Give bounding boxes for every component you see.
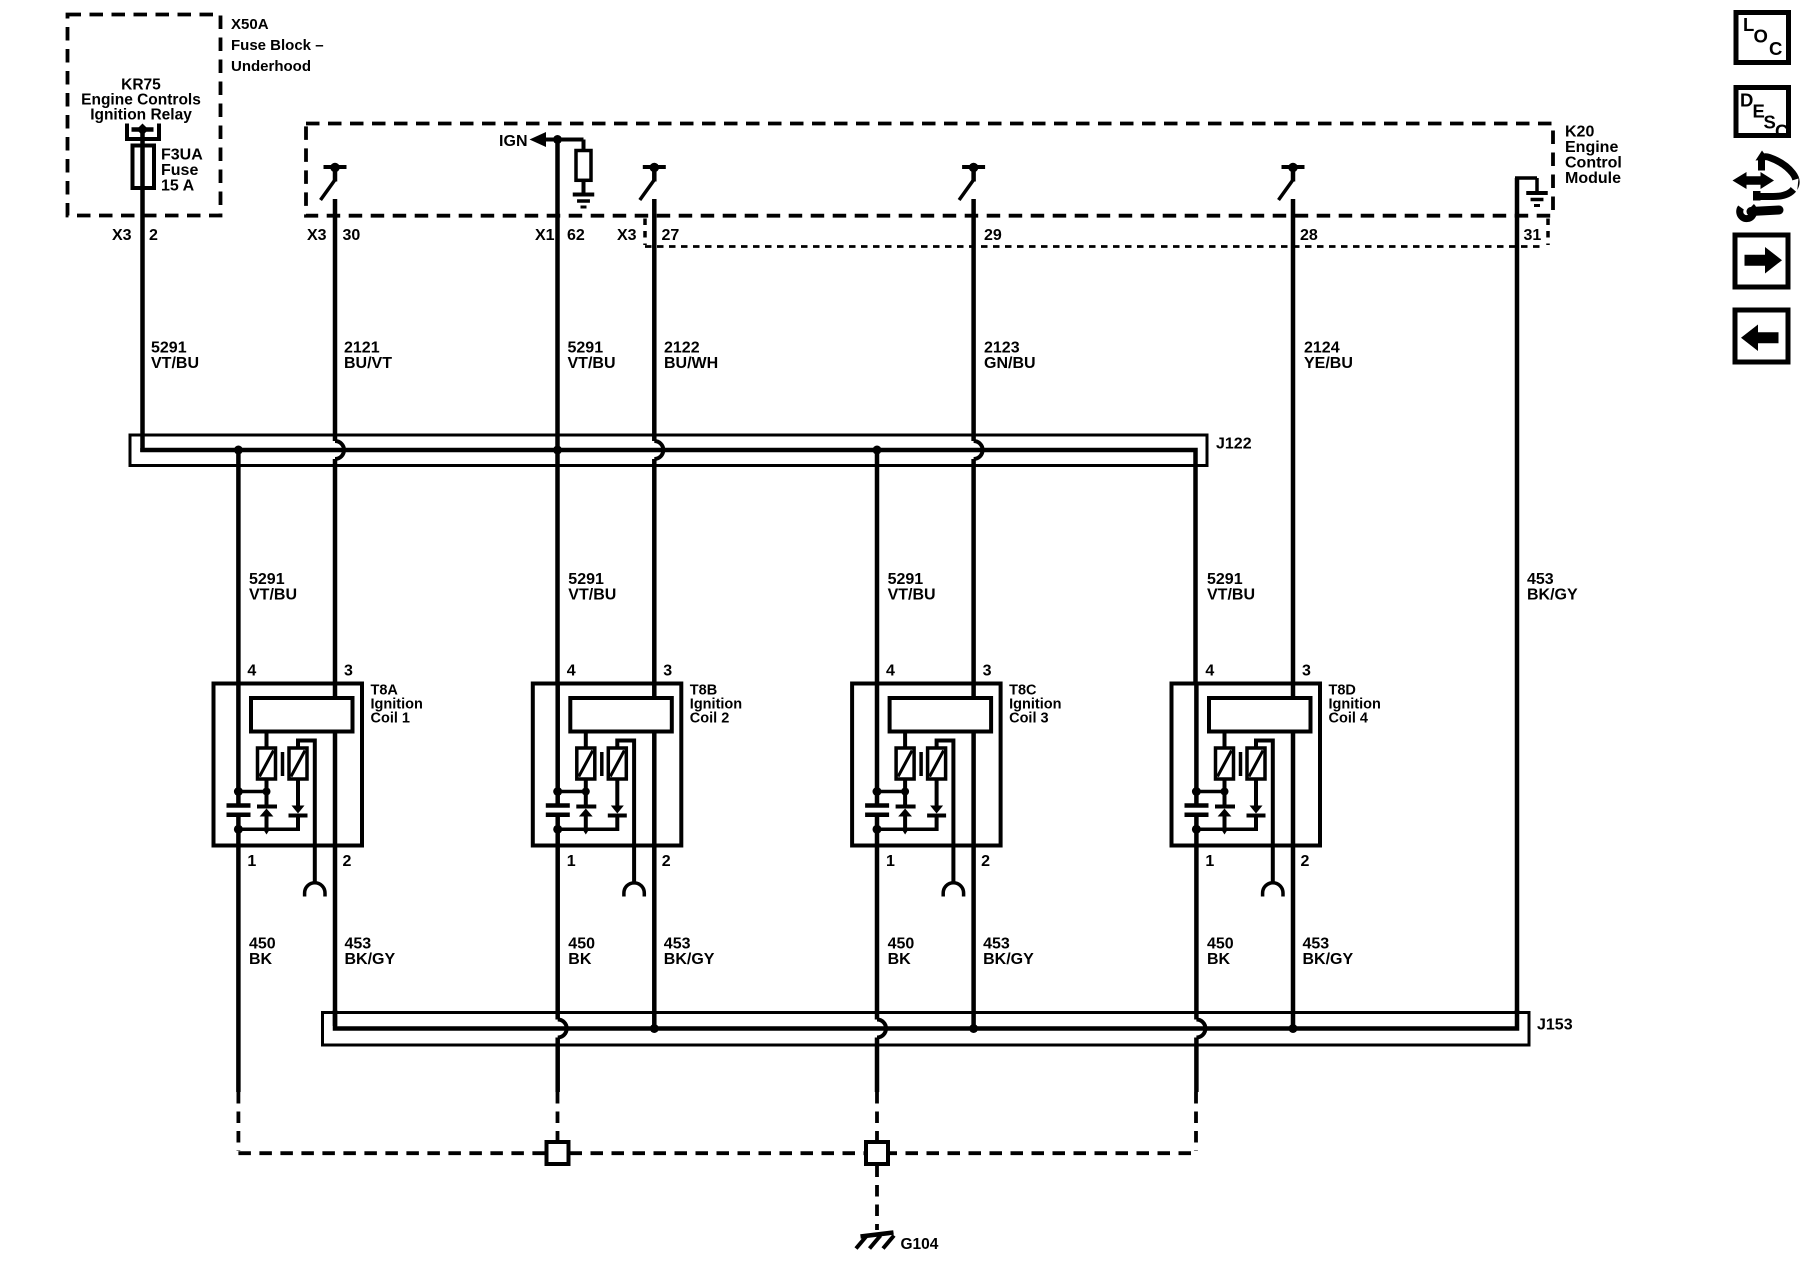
svg-text:453: 453 — [345, 936, 372, 953]
wire 453 BK/GY coil1 pin2 down — [333, 845, 338, 1026]
T8C secondary winding — [928, 748, 946, 779]
ground symbol pin 31 — [1526, 193, 1548, 206]
svg-text:28: 28 — [1300, 227, 1318, 244]
switch driver for pin 27 — [640, 163, 666, 200]
switch driver for pin 29 — [959, 163, 985, 200]
T8C pin2 internal wire from module — [971, 731, 976, 846]
label X50A Fuse Block - Underhood — [231, 16, 324, 75]
svg-text:J122: J122 — [1216, 436, 1252, 453]
svg-text:2: 2 — [981, 853, 990, 870]
wire 453 BK/GY pin31 to J153 — [1515, 178, 1520, 1014]
T8D junction dot pin4 lower — [1192, 825, 1201, 834]
T8A zener diode left — [257, 807, 277, 835]
svg-text:BK/GY: BK/GY — [664, 951, 715, 968]
svg-text:1: 1 — [1205, 853, 1214, 870]
svg-text:2121: 2121 — [344, 340, 380, 357]
svg-text:453: 453 — [983, 936, 1010, 953]
ECM internal ground for pin 31 — [1515, 178, 1537, 193]
T8A primary module rectangle — [251, 698, 353, 732]
relay KR75 contact symbol — [127, 124, 159, 140]
svg-text:4: 4 — [1205, 663, 1214, 680]
wire 2124 YE/BU pin28 to coil4 pin3 — [1291, 199, 1296, 684]
junction dot J122 coil1 feed — [234, 446, 243, 455]
T8C secondary to HV terminal wire — [937, 741, 954, 885]
splice J153 internal bus wire — [335, 1010, 1517, 1029]
svg-text:3: 3 — [1302, 663, 1311, 680]
svg-text:BK/GY: BK/GY — [983, 951, 1034, 968]
svg-text:VT/BU: VT/BU — [151, 355, 199, 372]
svg-text:D: D — [1740, 90, 1753, 111]
svg-text:Coil 4: Coil 4 — [1329, 711, 1368, 727]
svg-text:BK/GY: BK/GY — [1303, 951, 1354, 968]
wire label 5291 VT/BU coil4 — [1207, 571, 1255, 604]
T8B primary winding — [577, 748, 595, 779]
fuse block X50A dashed box — [68, 15, 221, 216]
svg-text:450: 450 — [249, 936, 276, 953]
svg-text:1: 1 — [247, 853, 256, 870]
junction dot J153 coil2 — [650, 1024, 659, 1033]
svg-text:62: 62 — [567, 227, 585, 244]
wire from relay through fuse down to J122 splice — [140, 130, 145, 453]
resistor in ECM — [576, 140, 591, 195]
wire label 5291 VT/BU coil3 — [888, 571, 936, 604]
dashed ground wire coil3 450 BK — [875, 1092, 879, 1141]
svg-text:5291: 5291 — [1207, 571, 1243, 588]
T8C bottom return wire — [877, 828, 938, 832]
wire 2123 GN/BU pin29 to coil3 pin3 — [974, 199, 983, 684]
splice J153 outline — [323, 1013, 1530, 1046]
svg-text:BK/GY: BK/GY — [345, 951, 396, 968]
inline connector square at coil3 ground — [866, 1142, 888, 1164]
T8D diode right — [1247, 806, 1266, 832]
wire label 453 BK/GY coil3 — [983, 936, 1034, 969]
svg-text:2: 2 — [343, 853, 352, 870]
svg-text:453: 453 — [664, 936, 691, 953]
T8D core bar — [1239, 752, 1243, 776]
connector label X3 pin 2 — [112, 227, 158, 244]
wire label 453 BK/GY coil2 — [664, 936, 715, 969]
T8C capacitor — [865, 806, 889, 815]
T8A diode right — [289, 806, 308, 832]
T8A pin1 wire capacitor to box bottom — [236, 815, 241, 846]
svg-text:4: 4 — [567, 663, 576, 680]
wire 450 BK coil1 pin1 down — [236, 845, 241, 1092]
T8B junction dot pin4 upper — [553, 787, 562, 796]
dashed wire square to G104 — [875, 1166, 879, 1231]
svg-text:VT/BU: VT/BU — [568, 587, 616, 604]
T8B primary module rectangle — [570, 698, 672, 732]
junction dot J122 at coil2 feed — [553, 446, 562, 455]
T8D primary winding — [1216, 748, 1234, 779]
T8A wire pin4 to primary return — [238, 790, 266, 794]
IGN label and arrow — [499, 132, 546, 150]
wire 2121 BU/VT pin30 to coil1 pin3 — [335, 199, 344, 684]
dashed ground wire coil2 450 BK — [556, 1092, 560, 1141]
wire label 450 BK coil1 — [249, 936, 276, 969]
svg-text:BK/GY: BK/GY — [1527, 587, 1578, 604]
T8B secondary winding lower wire — [615, 779, 619, 806]
T8B junction dot primary return — [582, 788, 590, 796]
svg-text:X50A: X50A — [231, 16, 269, 33]
svg-text:J153: J153 — [1537, 1017, 1573, 1034]
svg-text:1: 1 — [886, 853, 895, 870]
svg-text:2122: 2122 — [664, 340, 700, 357]
svg-text:IGN: IGN — [499, 133, 527, 150]
sidebar LOC button — [1736, 13, 1789, 63]
svg-text:453: 453 — [1527, 571, 1554, 588]
svg-text:1: 1 — [567, 853, 576, 870]
dashed ground wire coil4 450 BK — [1194, 1092, 1198, 1151]
sidebar hotlink icon — [1733, 151, 1799, 219]
T8D pin4 internal wire — [1194, 683, 1199, 806]
T8C secondary winding lower wire — [935, 779, 939, 806]
svg-text:BK: BK — [888, 951, 912, 968]
T8D spark plug gap symbol — [1263, 883, 1283, 897]
wire 450 BK coil2 pin1 down — [558, 845, 567, 1092]
T8C pin4 internal wire — [875, 683, 880, 806]
svg-text:Engine: Engine — [1565, 139, 1618, 156]
T8D wire module to primary winding — [1223, 731, 1227, 749]
T8B secondary to HV terminal wire — [617, 741, 634, 885]
label T8B Ignition Coil 2 — [690, 683, 742, 727]
svg-text:3: 3 — [663, 663, 672, 680]
svg-text:C: C — [1769, 38, 1782, 59]
ground G104 symbol — [856, 1233, 894, 1249]
T8A core bar — [281, 752, 285, 776]
T8A pin3 internal wire — [333, 683, 338, 700]
sidebar back arrow button — [1735, 310, 1788, 362]
svg-text:Module: Module — [1565, 170, 1621, 187]
T8A pin4 internal wire — [236, 683, 241, 806]
wire IGN feed horizontal — [545, 138, 584, 142]
T8C pin1 wire capacitor to box bottom — [875, 815, 880, 846]
T8A capacitor — [227, 806, 251, 815]
sidebar DESC button — [1736, 88, 1789, 142]
svg-text:BK: BK — [1207, 951, 1231, 968]
T8D wire pin4 to primary return — [1196, 790, 1224, 794]
svg-text:O: O — [1754, 26, 1768, 47]
svg-text:2: 2 — [662, 853, 671, 870]
wire 5291 VT/BU J122 to coil1 pin4 — [236, 448, 241, 684]
svg-text:5291: 5291 — [249, 571, 285, 588]
svg-text:BK: BK — [568, 951, 592, 968]
connector pin labels X3 27 — [617, 227, 679, 244]
wire 453 BK/GY coil4 pin2 down — [1291, 845, 1296, 1029]
ignition coil T8A box — [214, 684, 363, 846]
T8D junction dot pin4 upper — [1192, 787, 1201, 796]
T8B wire pin4 to primary return — [558, 790, 586, 794]
wire 2122 BU/WH pin27 to coil2 pin3 — [654, 199, 663, 684]
svg-text:453: 453 — [1303, 936, 1330, 953]
label T8C Ignition Coil 3 — [1009, 683, 1061, 727]
T8D secondary to HV terminal wire — [1256, 741, 1273, 885]
svg-text:X1: X1 — [535, 227, 555, 244]
svg-text:Underhood: Underhood — [231, 58, 311, 75]
fuse F3UA 15A symbol — [133, 146, 155, 189]
dashed ground wire coil1 450 BK — [236, 1092, 240, 1151]
svg-text:F3UA: F3UA — [161, 147, 203, 164]
T8B capacitor — [546, 806, 570, 815]
junction dot J122 coil3 feed — [873, 446, 882, 455]
label KR75 Engine Controls Ignition Relay — [81, 77, 201, 124]
svg-text:Control: Control — [1565, 155, 1622, 172]
svg-text:3: 3 — [983, 663, 992, 680]
T8D secondary winding — [1247, 748, 1265, 779]
T8A secondary winding lower wire — [296, 779, 300, 806]
wire 453 BK/GY coil2 pin2 down — [652, 845, 657, 1029]
svg-text:450: 450 — [1207, 936, 1234, 953]
svg-text:G104: G104 — [901, 1236, 939, 1253]
splice J122 outline — [130, 435, 1207, 466]
svg-text:5291: 5291 — [568, 340, 604, 357]
svg-text:Coil 1: Coil 1 — [371, 711, 410, 727]
svg-text:Coil 3: Coil 3 — [1009, 711, 1048, 727]
T8C diode right — [927, 806, 946, 832]
T8B pin4 internal wire — [555, 683, 560, 806]
T8B pin1 wire capacitor to box bottom — [555, 815, 560, 846]
svg-text:S: S — [1764, 112, 1776, 133]
connector pin labels X1 62 — [535, 227, 585, 244]
svg-text:15 A: 15 A — [161, 178, 195, 195]
wire label 5291 VT/BU coil2 — [568, 571, 616, 604]
wire label 2124 YE/BU — [1304, 340, 1353, 373]
wire label 453 BK/GY coil1 — [345, 936, 396, 969]
T8B zener diode left — [576, 807, 596, 835]
T8A secondary to HV terminal wire — [298, 741, 315, 885]
svg-text:4: 4 — [886, 663, 895, 680]
svg-text:5291: 5291 — [888, 571, 924, 588]
switch driver for pin 30 — [321, 163, 347, 200]
T8D pin2 internal wire from module — [1291, 731, 1296, 846]
T8C wire pin4 to primary return — [877, 790, 905, 794]
T8C core bar — [919, 752, 923, 776]
svg-text:Fuse Block –: Fuse Block – — [231, 37, 324, 54]
T8A primary winding — [258, 748, 276, 779]
junction dot J153 coil3 — [969, 1024, 978, 1033]
T8B spark plug gap symbol — [624, 883, 644, 897]
T8D pin3 internal wire — [1291, 683, 1296, 700]
T8C wire module to primary winding — [903, 731, 907, 749]
svg-text:29: 29 — [984, 227, 1002, 244]
svg-text:C: C — [1775, 121, 1788, 142]
ignition coil T8C box — [852, 684, 1001, 846]
svg-text:450: 450 — [888, 936, 915, 953]
T8B core bar — [600, 752, 604, 776]
svg-text:27: 27 — [662, 227, 680, 244]
wire 450 BK coil3 pin1 down — [877, 845, 886, 1092]
svg-text:5291: 5291 — [568, 571, 604, 588]
wire label 2123 GN/BU — [984, 340, 1036, 373]
T8B pin2 internal wire from module — [652, 731, 657, 846]
wire label 450 BK coil3 — [888, 936, 915, 969]
dashed ground horizontal bus — [570, 1151, 1197, 1155]
svg-text:K20: K20 — [1565, 124, 1594, 141]
junction dot IGN node — [553, 135, 562, 144]
T8C junction dot primary return — [901, 788, 909, 796]
svg-text:VT/BU: VT/BU — [568, 355, 616, 372]
junction dot J153 coil4 — [1289, 1024, 1298, 1033]
ignition coil T8B box — [533, 684, 682, 846]
T8B secondary winding — [608, 748, 626, 779]
wire label 5291 VT/BU (IGN) — [568, 340, 616, 373]
svg-text:31: 31 — [1524, 227, 1542, 244]
wire label 453 BK/GY (ECM ground) — [1527, 571, 1578, 604]
inline connector square at coil2 ground — [547, 1142, 569, 1164]
wire label 2121 BU/VT — [344, 340, 392, 373]
T8C junction dot pin4 lower — [873, 825, 882, 834]
svg-text:BU/WH: BU/WH — [664, 355, 718, 372]
T8B junction dot pin4 lower — [553, 825, 562, 834]
wire label 453 BK/GY coil4 — [1303, 936, 1354, 969]
svg-text:Ignition Relay: Ignition Relay — [90, 107, 192, 124]
wire 450 BK coil4 pin1 down — [1196, 845, 1205, 1092]
dashed ground corner coil1 — [238, 1151, 545, 1155]
T8A junction dot pin4 upper — [234, 787, 243, 796]
connector pin labels X3 30 — [307, 227, 360, 244]
wire 5291 VT/BU IGN to coil2 pin4 — [555, 140, 560, 685]
T8C primary winding — [896, 748, 914, 779]
T8D capacitor — [1185, 806, 1209, 815]
label K20 Engine Control Module — [1565, 124, 1622, 188]
svg-text:BK: BK — [249, 951, 273, 968]
svg-text:2124: 2124 — [1304, 340, 1340, 357]
ignition coil T8D box — [1172, 684, 1321, 846]
T8D junction dot primary return — [1221, 788, 1229, 796]
wire label 450 BK coil2 — [568, 936, 595, 969]
svg-text:Fuse: Fuse — [161, 162, 198, 179]
svg-text:VT/BU: VT/BU — [249, 587, 297, 604]
wire label 5291 VT/BU (fuse output) — [151, 340, 199, 373]
svg-text:2: 2 — [149, 227, 158, 244]
T8C primary module rectangle — [890, 698, 992, 732]
svg-text:3: 3 — [344, 663, 353, 680]
T8A junction dot pin4 lower — [234, 825, 243, 834]
ECM K20 dashed box — [306, 124, 1553, 216]
svg-text:VT/BU: VT/BU — [1207, 587, 1255, 604]
wire label 450 BK coil4 — [1207, 936, 1234, 969]
wire 453 BK/GY coil3 pin2 down — [971, 845, 976, 1029]
svg-text:YE/BU: YE/BU — [1304, 355, 1353, 372]
T8B bottom return wire — [558, 828, 619, 832]
T8A spark plug gap symbol — [305, 883, 325, 897]
svg-text:GN/BU: GN/BU — [984, 355, 1036, 372]
T8D primary module rectangle — [1209, 698, 1311, 732]
T8A pin2 internal wire from module — [333, 731, 338, 846]
switch driver for pin 28 — [1279, 163, 1305, 200]
wire label 2122 BU/WH — [664, 340, 718, 373]
label F3UA Fuse 15 A — [161, 147, 203, 195]
sidebar forward arrow button — [1735, 235, 1788, 287]
svg-text:5291: 5291 — [151, 340, 187, 357]
T8C spark plug gap symbol — [943, 883, 963, 897]
T8B primary winding lower wire — [584, 779, 588, 805]
label T8A Ignition Coil 1 — [371, 683, 423, 727]
T8A bottom return wire — [238, 828, 299, 832]
T8A wire module to primary winding — [265, 731, 269, 749]
svg-text:2: 2 — [1301, 853, 1310, 870]
T8A junction dot primary return — [263, 788, 271, 796]
svg-text:4: 4 — [247, 663, 256, 680]
svg-text:BU/VT: BU/VT — [344, 355, 392, 372]
T8C zener diode left — [896, 807, 916, 835]
wire label 5291 VT/BU coil1 — [249, 571, 297, 604]
svg-text:450: 450 — [568, 936, 595, 953]
svg-text:X3: X3 — [617, 227, 637, 244]
T8A primary winding lower wire — [265, 779, 269, 805]
svg-text:30: 30 — [343, 227, 361, 244]
svg-text:Coil 2: Coil 2 — [690, 711, 729, 727]
T8C primary winding lower wire — [903, 779, 907, 805]
wire 5291 VT/BU J122 to coil3 pin4 — [875, 448, 880, 684]
svg-text:X3: X3 — [112, 227, 132, 244]
T8C pin3 internal wire — [971, 683, 976, 700]
T8B pin3 internal wire — [652, 683, 657, 700]
label T8D Ignition Coil 4 — [1329, 683, 1381, 727]
svg-text:2123: 2123 — [984, 340, 1020, 357]
T8D zener diode left — [1215, 807, 1235, 835]
T8D bottom return wire — [1196, 828, 1257, 832]
T8C junction dot pin4 upper — [873, 787, 882, 796]
splice J122 internal bus wire — [143, 448, 1196, 684]
T8B diode right — [608, 806, 627, 832]
connector X3 strip dashed outline — [645, 219, 1548, 247]
T8D primary winding lower wire — [1223, 779, 1227, 805]
T8A secondary winding — [289, 748, 307, 779]
svg-text:X3: X3 — [307, 227, 327, 244]
T8D secondary winding lower wire — [1254, 779, 1258, 806]
svg-text:VT/BU: VT/BU — [888, 587, 936, 604]
ground symbol under resistor — [573, 195, 595, 208]
T8B wire module to primary winding — [584, 731, 588, 749]
T8D pin1 wire capacitor to box bottom — [1194, 815, 1199, 846]
